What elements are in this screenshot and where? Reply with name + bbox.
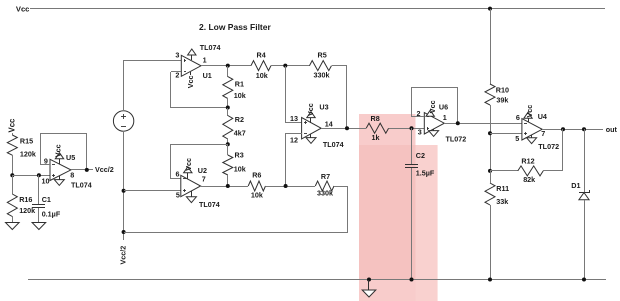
- svg-text:1k: 1k: [372, 133, 380, 142]
- svg-text:R8: R8: [371, 114, 380, 123]
- resistor R12: [490, 170, 518, 172]
- junction U2 +input tap: [122, 189, 126, 193]
- wire C1 to ground: [38, 208, 40, 222]
- wire D1 to ground rail: [584, 200, 586, 280]
- source V1 (input): [113, 111, 133, 131]
- svg-text:Vcc: Vcc: [8, 118, 17, 133]
- wire R11 to ground rail: [490, 171, 492, 183]
- capacitor C2: [411, 128, 413, 164]
- resistor R10: [485, 84, 495, 105]
- wire C2 to ground rail: [411, 168, 413, 280]
- svg-text:3: 3: [175, 50, 179, 59]
- svg-text:R15: R15: [20, 137, 33, 146]
- svg-text:12: 12: [290, 135, 298, 144]
- ground (rail): [368, 280, 370, 290]
- junction U3 output / R5 feedback: [345, 126, 349, 130]
- junction divider / U4 -input: [488, 131, 492, 135]
- wire Vcc to R15: [12, 133, 14, 135]
- resistor R1: [227, 66, 229, 77]
- svg-text:R2: R2: [235, 115, 244, 124]
- node E (R4/R5/U3+): [283, 64, 287, 68]
- capacitor C1: [38, 175, 40, 204]
- op-amp U1: [181, 55, 201, 76]
- highlight region (bottom-left): [359, 280, 416, 301]
- wire U6 feedback box: [411, 116, 424, 118]
- op-amp U4: [522, 119, 542, 140]
- ground (R16): [6, 223, 20, 230]
- resistor R11: [485, 183, 495, 205]
- svg-text:33k: 33k: [496, 197, 508, 206]
- svg-text:out: out: [606, 125, 618, 134]
- svg-text:10k: 10k: [256, 71, 268, 80]
- highlight region (left column): [359, 145, 416, 280]
- wire U3 -input to R6/R7 node: [286, 133, 302, 135]
- highlight region (upper): [359, 114, 416, 145]
- svg-text:2. Low Pass Filter: 2. Low Pass Filter: [199, 22, 271, 32]
- svg-text:6: 6: [516, 113, 520, 122]
- svg-text:Vcc: Vcc: [184, 158, 193, 171]
- wire U5 output: [71, 169, 93, 171]
- diode D1: [584, 129, 586, 192]
- junction top rail / R10: [488, 7, 492, 11]
- svg-text:330k: 330k: [317, 189, 333, 198]
- wire R10 to divider node: [490, 105, 492, 171]
- svg-text:330k: 330k: [314, 70, 330, 79]
- svg-text:1.5µF: 1.5µF: [416, 168, 435, 177]
- svg-text:6: 6: [176, 169, 180, 178]
- svg-text:D1: D1: [571, 181, 580, 190]
- node C1 tap: [37, 173, 41, 177]
- svg-text:Vcc: Vcc: [525, 105, 534, 118]
- wire divider node to U5 +input: [12, 175, 50, 177]
- svg-text:5: 5: [176, 190, 180, 199]
- svg-text:10k: 10k: [234, 91, 246, 100]
- svg-text:Vcc: Vcc: [428, 100, 437, 113]
- node B (R1/R2): [226, 106, 230, 110]
- svg-text:Vcc: Vcc: [54, 144, 63, 157]
- junction ground symbol: [367, 278, 371, 282]
- junction Vcc/2 long line: [122, 230, 126, 234]
- junction R3 bottom / U2 output: [226, 184, 230, 188]
- wire R12 to U4 output: [543, 170, 563, 172]
- wire U3 output: [321, 128, 366, 130]
- svg-text:1: 1: [443, 113, 447, 122]
- resistor R16: [12, 175, 14, 194]
- resistor R8: [366, 123, 388, 133]
- resistor R6: [248, 181, 265, 191]
- resistor R7: [315, 181, 334, 191]
- junction R12 tap: [488, 169, 492, 173]
- svg-text:14: 14: [325, 119, 333, 128]
- ground (C1): [32, 223, 46, 230]
- wire node E to U3 +input: [285, 66, 287, 122]
- resistor R3: [227, 144, 229, 155]
- svg-text:U4: U4: [538, 112, 547, 121]
- node divider (R15/R16): [10, 173, 14, 177]
- wire to U2 +input: [124, 190, 181, 192]
- junction C2 / rail: [410, 278, 414, 282]
- svg-text:U1: U1: [203, 71, 212, 80]
- node C (R2/R3): [226, 142, 230, 146]
- wire R16 to ground: [12, 216, 14, 222]
- wire R7 to Vcc/2 line: [334, 186, 348, 188]
- junction D1 / rail: [582, 278, 586, 282]
- wire Vcc top rail: [30, 8, 605, 10]
- svg-text:7: 7: [202, 174, 206, 183]
- op-amp U2: [181, 175, 201, 196]
- svg-text:4k7: 4k7: [234, 128, 246, 137]
- svg-text:13: 13: [290, 114, 298, 123]
- svg-text:R4: R4: [257, 51, 266, 60]
- svg-text:82k: 82k: [523, 175, 535, 184]
- wire U1 output: [201, 65, 251, 67]
- node F (R6/R7/U3-): [284, 184, 288, 188]
- wire U2 output line: [201, 186, 248, 188]
- svg-text:R16: R16: [19, 195, 32, 204]
- svg-text:Vcc: Vcc: [306, 103, 315, 116]
- svg-text:TL074: TL074: [199, 200, 220, 209]
- svg-text:R6: R6: [252, 171, 261, 180]
- svg-text:TL074: TL074: [71, 181, 92, 190]
- wire R10 drop from Vcc rail: [490, 9, 492, 84]
- svg-text:C1: C1: [42, 195, 51, 204]
- svg-text:Vcc: Vcc: [186, 76, 195, 89]
- junction U6 feedback tap: [456, 121, 460, 125]
- svg-text:2: 2: [175, 71, 179, 80]
- svg-text:TL072: TL072: [446, 135, 467, 144]
- svg-text:R12: R12: [521, 156, 534, 165]
- wire node C to U2 -input: [170, 144, 228, 146]
- svg-text:10: 10: [42, 177, 50, 186]
- junction R11 / rail: [488, 278, 492, 282]
- resistor R4: [251, 61, 271, 71]
- wire U1 feedback (-input to R1/R2 node): [171, 71, 181, 73]
- junction U1 output / R1: [226, 64, 230, 68]
- svg-text:0.1µF: 0.1µF: [42, 210, 61, 219]
- op-amp U5: [50, 159, 71, 180]
- svg-text:R7: R7: [321, 172, 330, 181]
- svg-text:C2: C2: [416, 151, 425, 160]
- junction R8 / C2 / U6 +input: [410, 126, 414, 130]
- svg-text:10k: 10k: [251, 190, 263, 199]
- op-amp U3: [302, 118, 322, 139]
- svg-text:U6: U6: [439, 102, 448, 111]
- svg-text:U3: U3: [319, 102, 328, 111]
- wire U4 output: [542, 129, 603, 131]
- wire R5 to U3 output: [332, 65, 347, 67]
- resistor R15: [7, 135, 17, 155]
- svg-text:5: 5: [515, 134, 519, 143]
- resistor R2: [227, 108, 229, 116]
- svg-text:R5: R5: [318, 51, 327, 60]
- wire source bottom to Vcc/2 net: [123, 131, 125, 240]
- junction R12 feedback tap: [561, 127, 565, 131]
- highlight region (right column): [416, 145, 438, 301]
- op-amp U6: [424, 113, 444, 134]
- svg-text:TL074: TL074: [323, 140, 344, 149]
- wire Vcc/2 long line: [124, 232, 348, 234]
- svg-text:Vcc/2: Vcc/2: [118, 246, 127, 265]
- svg-text:Vcc/2: Vcc/2: [95, 165, 114, 174]
- svg-text:8: 8: [70, 171, 74, 180]
- wire U6 output to U4 +input: [444, 123, 522, 125]
- svg-text:TL074: TL074: [200, 43, 221, 52]
- junction D1 tap: [582, 127, 586, 131]
- wire U5 feedback (output to -input): [86, 134, 88, 170]
- junction U5 feedback tap: [85, 168, 89, 172]
- svg-text:R11: R11: [496, 184, 509, 193]
- svg-text:39k: 39k: [496, 95, 508, 104]
- svg-text:R10: R10: [496, 85, 509, 94]
- svg-text:7: 7: [541, 129, 545, 138]
- wire R4 to node E: [271, 65, 310, 67]
- wire source to U1 +input: [123, 60, 125, 111]
- svg-text:10k: 10k: [234, 164, 246, 173]
- svg-text:R1: R1: [235, 80, 244, 89]
- wire ground rail (bottom): [28, 279, 606, 281]
- svg-text:3: 3: [418, 128, 422, 137]
- svg-text:1: 1: [203, 56, 207, 65]
- wire R6 to node F: [266, 186, 315, 188]
- wire R8 to U6 +input: [389, 128, 424, 130]
- resistor R5: [310, 61, 332, 71]
- svg-text:Vcc: Vcc: [16, 4, 30, 13]
- wire divider node to U4 -input: [490, 133, 522, 135]
- wire R15 to divider node: [12, 155, 14, 175]
- svg-text:TL072: TL072: [538, 142, 559, 151]
- svg-text:120k: 120k: [20, 149, 36, 158]
- svg-text:R3: R3: [235, 150, 244, 159]
- svg-text:U5: U5: [66, 153, 75, 162]
